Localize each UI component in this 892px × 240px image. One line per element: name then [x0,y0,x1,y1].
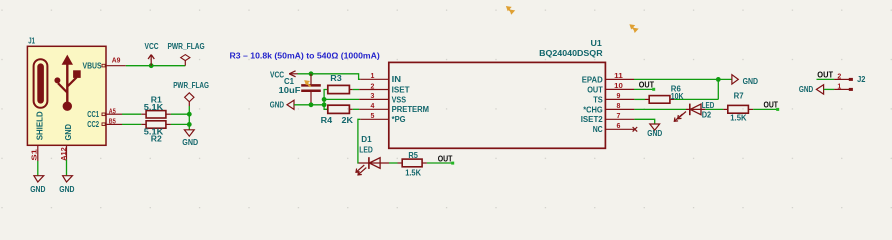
svg-text:OUT: OUT [438,155,453,164]
svg-text:TS: TS [593,95,603,104]
pin 2 ISET [359,89,389,91]
svg-text:ISET: ISET [392,85,410,94]
svg-text:GND: GND [182,138,198,147]
svg-text:VBUS: VBUS [83,61,103,70]
resistor R4 2K [328,105,350,113]
wire R2 to bus [171,123,189,125]
wire D1 to R5 [389,162,398,164]
svg-text:R7: R7 [734,91,745,100]
svg-text:CC2: CC2 [87,120,99,129]
wire VSS [324,98,359,100]
svg-text:C1: C1 [284,77,295,86]
wire pin5 to D1 [358,119,360,163]
resistor R7 1.5K [723,108,728,110]
svg-text:A9: A9 [112,58,121,65]
LED D1 emission arrows [356,165,366,175]
connector J1 body [27,46,106,145]
svg-text:GND: GND [30,185,45,194]
svg-text:PRETERM: PRETERM [392,105,430,114]
wire D2 to R7 [705,108,723,110]
svg-text:GND: GND [64,124,73,141]
svg-text:D1: D1 [361,135,372,144]
wire R4 to pin 4 [353,108,359,110]
svg-text:J1: J1 [28,36,35,46]
pin 2 (J2) [834,78,849,80]
pin 10 OUT [605,88,634,90]
pin 4 PRETERM [359,108,389,110]
junction GND rail/vertical [322,102,327,107]
pin 1 (J2) [834,88,849,90]
svg-text:1.5K: 1.5K [730,113,746,122]
svg-text:OUT: OUT [764,100,779,109]
junction VBUS/VCC [149,63,154,68]
marker (dangling 1) [506,6,515,15]
svg-text:D2: D2 [702,111,712,120]
svg-text:3: 3 [371,93,375,100]
IC U1 BQ24040DSQR body [389,62,606,148]
svg-text:NC: NC [593,125,603,134]
wire R5 to OUT label [427,162,452,164]
svg-text:CC1: CC1 [87,110,99,119]
svg-text:1: 1 [837,83,841,90]
LED D1 [359,162,390,164]
pin VBUS A9 [106,65,126,67]
svg-text:PWR_FLAG: PWR_FLAG [168,41,205,51]
junction VCC/C1 [309,71,314,76]
wire OUT to J2 pin 2 [817,78,835,80]
svg-text:LED: LED [702,101,715,110]
svg-text:IN: IN [392,75,402,84]
junction bus/CC2 [187,122,192,127]
pin 6 NC [605,128,634,130]
wire CC1 to R1 [122,113,141,115]
svg-text:BQ24040DSQR: BQ24040DSQR [539,48,603,58]
svg-text:GND: GND [59,185,74,194]
marker (C1 dangling) [304,80,310,87]
pin 7 ISET2 [605,118,634,120]
svg-text:VCC: VCC [270,69,284,79]
svg-text:EPAD: EPAD [582,75,603,84]
pin 1 IN [360,78,389,80]
svg-text:ISET2: ISET2 [581,115,604,124]
wire VCC to pin 1 [298,74,361,80]
svg-text:VCC: VCC [145,41,159,51]
pin root squares [102,64,105,67]
resistor R1 5.1K [141,113,146,115]
wire vertical bus CC1/CC2 to ground [188,106,190,130]
wire TS bus vertical [717,79,719,99]
svg-text:OUT: OUT [587,85,603,94]
ground GND (under S1) [34,176,44,182]
pin 8 *CHG [605,108,634,110]
wire EPAD to GND [634,78,732,80]
svg-text:R2: R2 [151,135,163,144]
svg-text:2K: 2K [342,116,354,125]
svg-text:SHIELD: SHIELD [35,111,44,140]
wire GND rail [294,104,324,106]
svg-text:VSS: VSS [392,95,407,104]
svg-text:10uF: 10uF [279,86,301,95]
junction bus/CC1 [187,112,192,117]
USB trident icon [54,55,80,111]
USB-C receptacle icon [34,59,48,108]
wire pin9 to R6 [634,98,645,100]
svg-text:8: 8 [617,103,621,110]
svg-text:*CHG: *CHG [583,105,603,114]
svg-text:U1: U1 [591,38,603,48]
power PWR_FLAG 2 [185,93,194,102]
svg-text:R3: R3 [330,74,342,83]
resistor R5 1.5K [398,162,403,164]
svg-text:GND: GND [743,77,759,86]
junction VSS/vertical [322,97,327,102]
pin 9 TS [605,98,634,100]
resistor R6 10K [645,98,649,100]
power VCC [150,55,152,66]
svg-text:GND: GND [799,85,813,94]
svg-text:2: 2 [837,74,841,81]
power PWR_FLAG 1 [184,60,186,65]
svg-text:9: 9 [617,93,621,100]
wire CC2 to R2 [122,123,141,125]
svg-text:R5: R5 [408,151,418,160]
svg-text:GND: GND [270,101,284,110]
junction C1/GND rail [309,102,314,107]
svg-text:S1: S1 [31,149,38,161]
ground GND (EPAD) [732,75,738,84]
ground GND (ISET2) [650,124,660,130]
pin 5 *PG [360,118,389,120]
svg-text:1.5K: 1.5K [405,169,421,178]
svg-text:2: 2 [371,83,375,90]
wire pin8 to D2 [634,108,686,110]
svg-text:B5: B5 [109,119,116,126]
wire GND to J2 pin 1 [824,88,835,90]
svg-text:LED: LED [359,146,373,155]
resistor R3 [328,85,350,93]
svg-text:OUT: OUT [817,71,833,80]
svg-text:R4: R4 [321,116,333,125]
capacitor C1 10uF [310,74,312,84]
marker (dangling 2) [629,24,638,33]
wire R7 to OUT label [753,108,777,110]
ground GND (under A12) [63,176,73,182]
svg-text:10: 10 [614,83,623,90]
svg-text:OUT: OUT [639,81,654,90]
svg-text:7: 7 [617,113,621,120]
svg-text:A5: A5 [109,108,116,115]
svg-text:6: 6 [617,123,621,130]
svg-text:10K: 10K [671,92,684,101]
wire A12 to ground [66,160,68,176]
wire R3 to pin 2 [353,89,359,91]
wire R1 to bus [171,113,189,115]
pin 11 EPAD [605,78,634,80]
svg-text:A12: A12 [61,147,68,161]
svg-text:1: 1 [371,73,375,80]
junction EPAD/TS bus [716,77,721,82]
label OUT (pin 10) [634,88,653,90]
no-connect x [633,127,638,132]
pin S1 (SHIELD) [37,145,39,161]
svg-text:PWR_FLAG: PWR_FLAG [173,80,209,90]
LED D2 [686,108,705,110]
wire VBUS net [126,65,186,67]
LED D2 emission arrows [674,112,686,122]
pin A12 (GND) [66,145,68,159]
svg-text:11: 11 [614,73,623,80]
pin CC2 B5 [106,123,122,125]
wire vertical R3/R4 bus [324,90,328,110]
resistor R2 5.1K [141,123,146,125]
pin 3 VSS [359,98,389,100]
svg-text:*PG: *PG [392,115,406,124]
wire SHIELD to ground [37,161,39,175]
svg-text:R3 – 10.8k (50mA) to 540Ω (100: R3 – 10.8k (50mA) to 540Ω (1000mA) [230,51,381,60]
wire ISET2 to ground [634,119,654,124]
svg-text:5: 5 [371,113,375,120]
ground GND (CC bus) [184,130,194,136]
svg-text:5.1K: 5.1K [144,103,164,112]
svg-text:J2: J2 [857,74,865,84]
svg-text:4: 4 [371,103,375,110]
svg-text:GND: GND [647,129,662,138]
pin CC1 A5 [106,113,122,115]
